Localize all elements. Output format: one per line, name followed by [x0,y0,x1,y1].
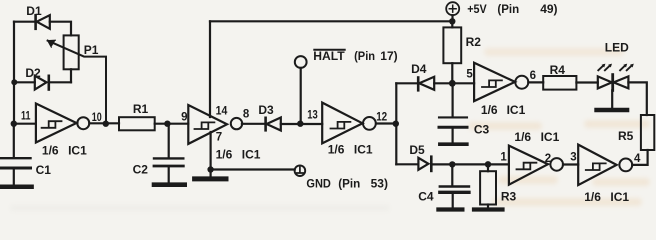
svg-text:10: 10 [92,112,102,124]
svg-text:(Pin: (Pin [497,2,519,16]
svg-text:2: 2 [545,153,551,165]
svg-text:C1: C1 [36,163,52,177]
svg-text:R1: R1 [133,102,149,116]
svg-text:13: 13 [307,110,318,122]
svg-text:4: 4 [634,153,641,165]
svg-text:1/6: 1/6 [481,103,498,117]
svg-text:LED: LED [605,40,629,54]
svg-text:IC1: IC1 [242,148,261,162]
svg-text:14: 14 [216,105,228,117]
svg-text:1/6: 1/6 [216,148,233,162]
svg-text:C4: C4 [418,190,434,204]
svg-text:3: 3 [570,152,576,164]
svg-text:D4: D4 [411,62,427,76]
svg-text:D2: D2 [25,66,41,80]
svg-text:D1: D1 [26,4,42,18]
svg-text:D5: D5 [409,143,425,157]
svg-text:IC1: IC1 [68,143,87,157]
svg-text:D3: D3 [258,103,274,117]
svg-text:(Pin: (Pin [354,49,375,63]
svg-text:R5: R5 [618,129,634,143]
svg-text:IC1: IC1 [541,130,560,144]
svg-text:R3: R3 [501,190,517,204]
svg-text:HALT: HALT [313,49,345,63]
svg-text:1/6: 1/6 [584,190,601,204]
svg-text:P1: P1 [84,43,99,57]
svg-text:C2: C2 [133,163,149,177]
svg-text:IC1: IC1 [507,103,526,117]
svg-text:GND: GND [306,176,331,190]
svg-text:R2: R2 [466,35,482,49]
svg-text:1/6: 1/6 [328,143,345,157]
svg-text:5: 5 [466,69,473,81]
svg-text:+5V: +5V [467,2,487,16]
svg-text:1: 1 [500,152,507,164]
svg-text:C3: C3 [474,123,490,137]
svg-text:53): 53) [371,176,388,190]
svg-text:1/6: 1/6 [42,143,59,157]
svg-text:IC1: IC1 [354,143,373,157]
svg-text:17): 17) [380,49,397,63]
svg-text:11: 11 [21,111,31,123]
svg-text:9: 9 [181,112,187,124]
svg-text:IC1: IC1 [610,190,629,204]
svg-text:(Pin: (Pin [338,176,360,190]
svg-text:R4: R4 [550,63,566,77]
svg-text:12: 12 [376,112,387,124]
svg-text:49): 49) [540,2,557,16]
svg-text:8: 8 [243,109,250,121]
svg-text:6: 6 [530,70,536,82]
svg-text:7: 7 [216,132,222,144]
svg-text:1/6: 1/6 [514,130,531,144]
